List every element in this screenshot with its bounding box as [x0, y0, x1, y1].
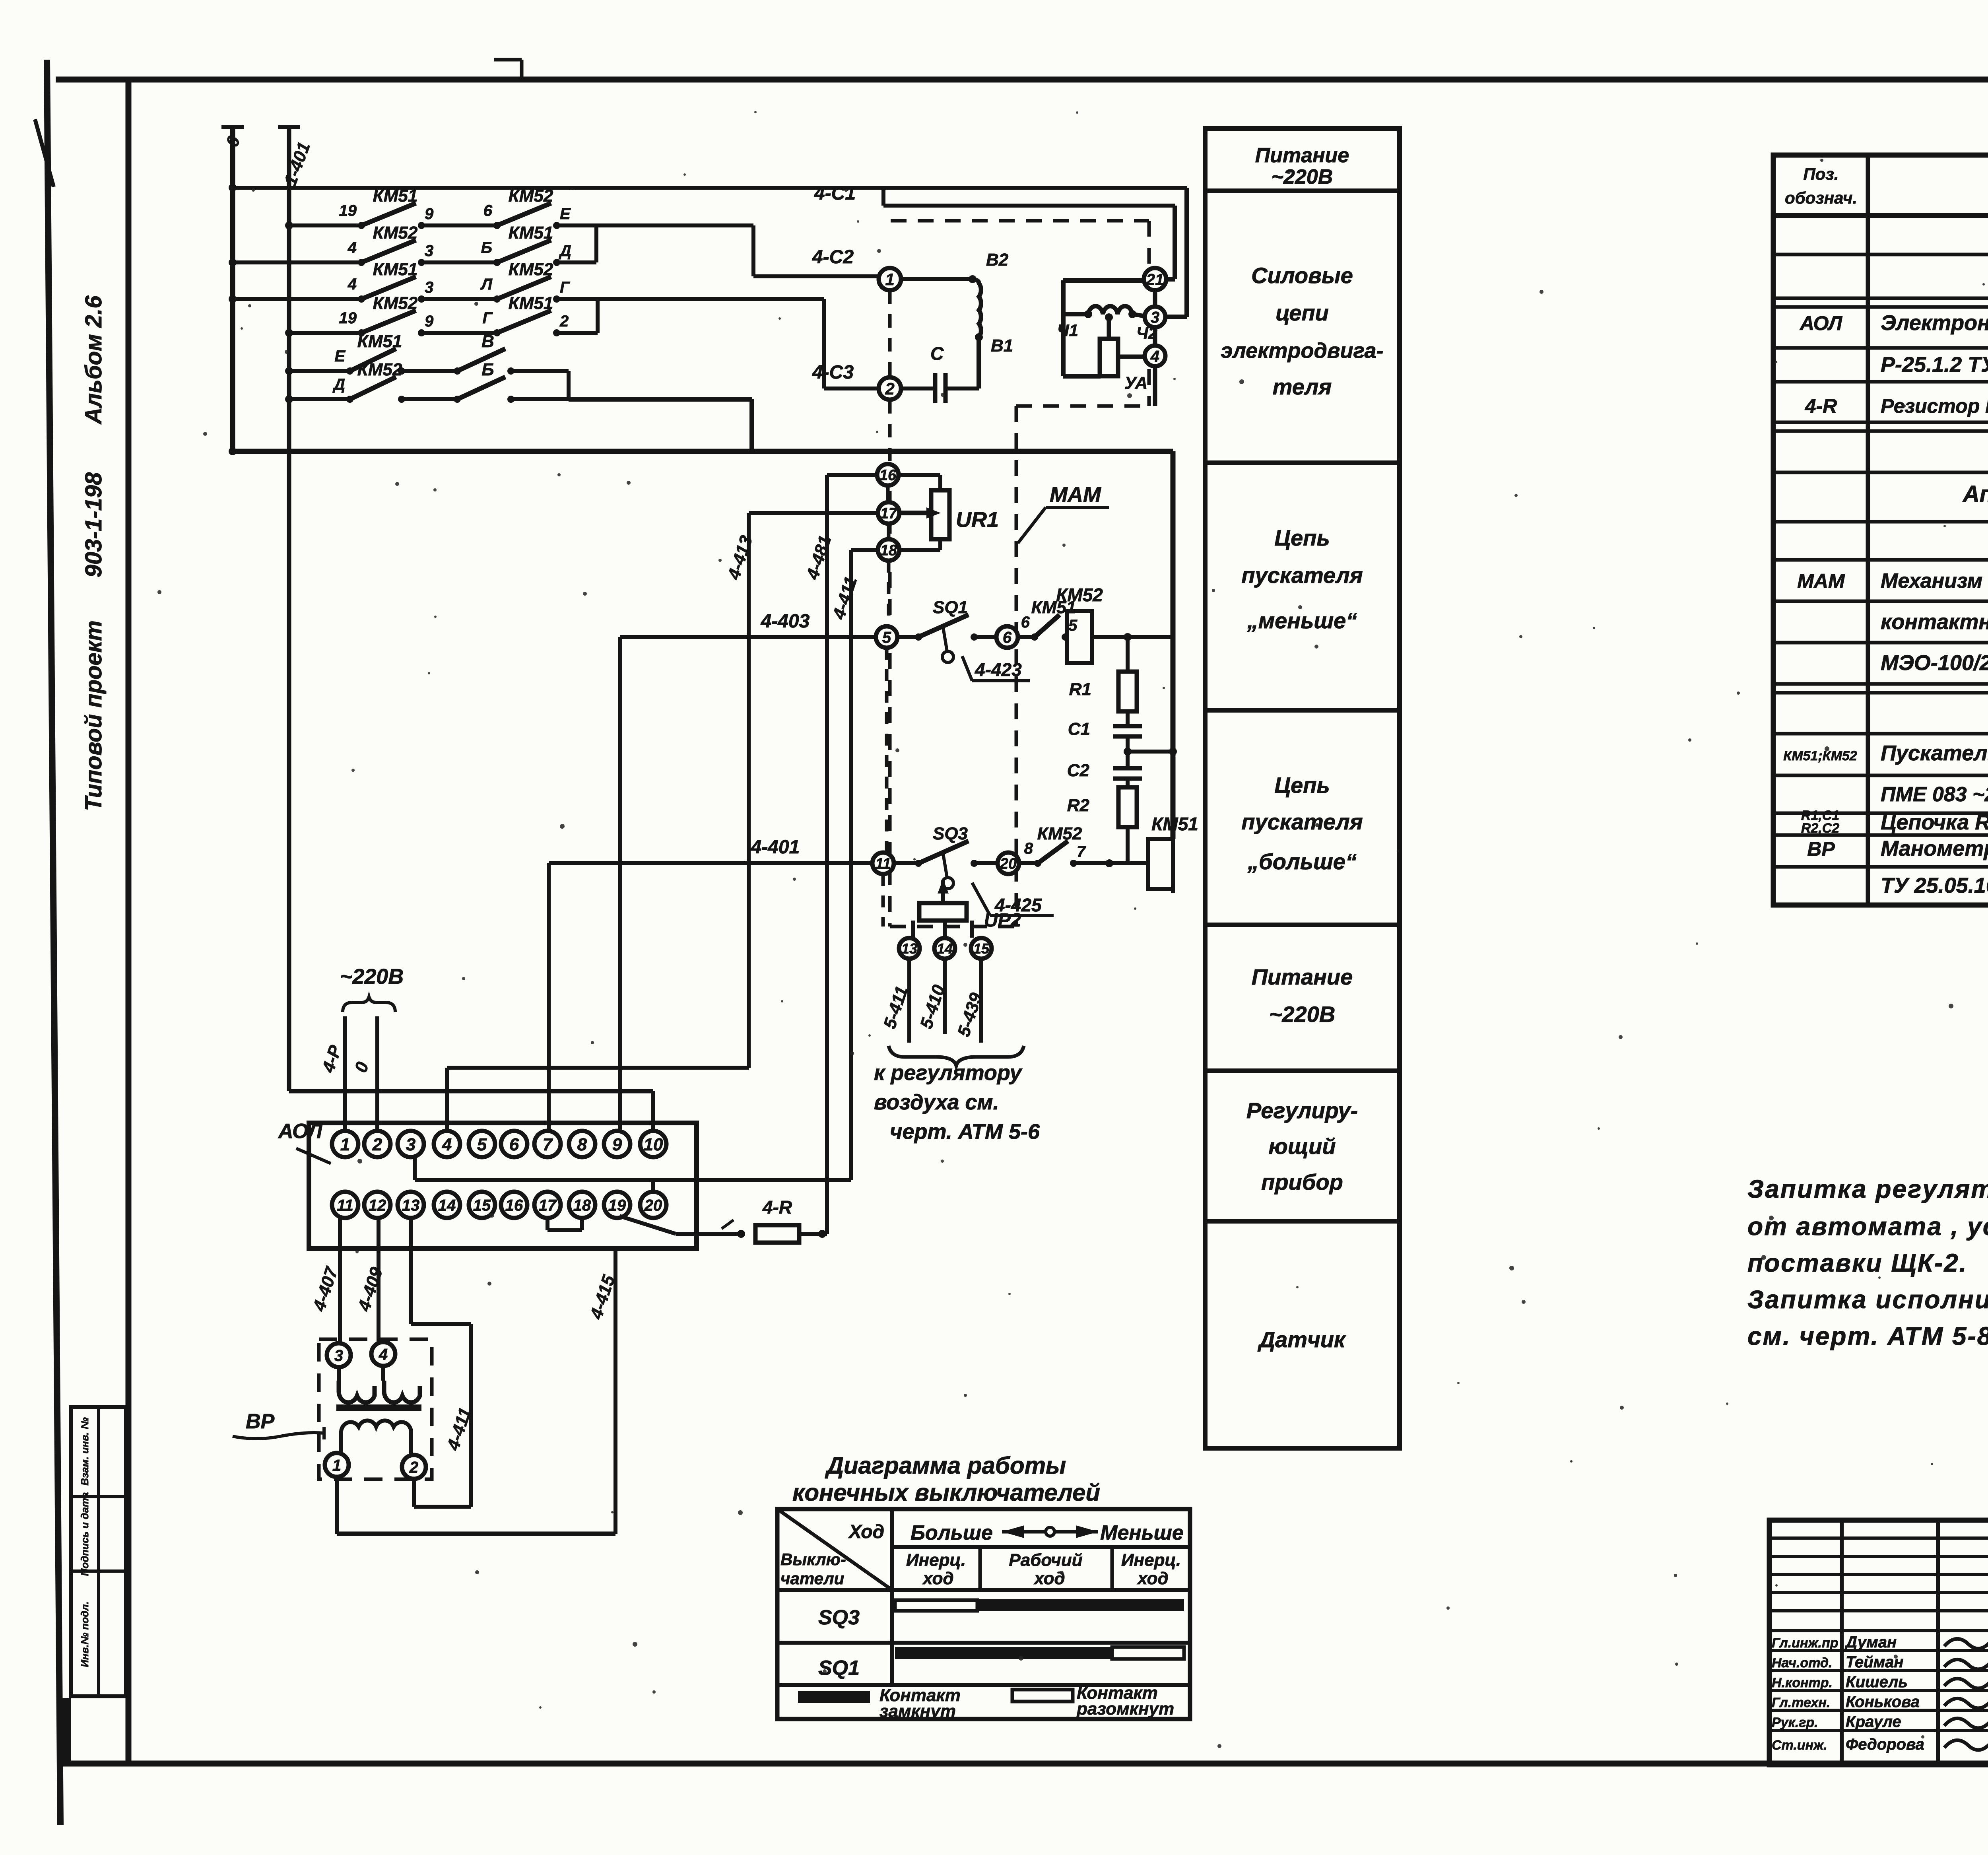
svg-text:воздуха см.: воздуха см.: [874, 1090, 999, 1114]
svg-text:МЭО-100/25 - 0,25: МЭО-100/25 - 0,25: [1881, 651, 1988, 675]
svg-text:„больше“: „больше“: [1247, 849, 1357, 874]
svg-text:20: 20: [644, 1197, 662, 1214]
svg-text:5: 5: [477, 1135, 487, 1154]
svg-text:Г: Г: [560, 279, 571, 296]
svg-text:С: С: [930, 343, 944, 364]
svg-text:„меньше“: „меньше“: [1247, 608, 1357, 633]
svg-text:903-1-198: 903-1-198: [81, 472, 107, 577]
svg-text:16: 16: [879, 467, 897, 484]
svg-text:4-С2: 4-С2: [812, 247, 854, 268]
svg-text:18: 18: [880, 542, 897, 559]
svg-text:контактный ГОСТ 7192-80: контактный ГОСТ 7192-80: [1881, 610, 1988, 634]
svg-text:R2,С2: R2,С2: [1801, 821, 1839, 836]
svg-text:ход: ход: [1137, 1569, 1168, 1588]
svg-text:Р-25.1.2 ТУ 25.02.1948-76: Р-25.1.2 ТУ 25.02.1948-76: [1881, 353, 1988, 377]
svg-text:С1: С1: [1068, 719, 1090, 739]
svg-text:УА: УА: [1124, 373, 1147, 393]
svg-text:Манометр МЭД модель 22365: Манометр МЭД модель 22365: [1881, 837, 1988, 860]
svg-text:Б: Б: [481, 360, 494, 379]
svg-text:замкнут: замкнут: [879, 1702, 956, 1721]
svg-text:Электронный регулирующий при: Электронный регулирующий прибор: [1881, 311, 1988, 335]
svg-text:КМ51: КМ51: [509, 223, 553, 243]
svg-text:4-R: 4-R: [762, 1197, 792, 1218]
svg-text:Резистор МЛТ-2 2ком,2Вт ГОСТ 7: Резистор МЛТ-2 2ком,2Вт ГОСТ 7113-77Е: [1881, 395, 1988, 417]
svg-text:14: 14: [937, 940, 953, 957]
svg-text:6: 6: [483, 202, 493, 219]
svg-text:Пускатель магнитный реверсив: Пускатель магнитный реверсивный: [1881, 741, 1988, 765]
svg-text:17: 17: [880, 505, 898, 522]
svg-text:3: 3: [334, 1347, 343, 1364]
svg-text:9: 9: [425, 313, 434, 330]
svg-text:КМ52: КМ52: [357, 360, 402, 379]
svg-text:Запитка исполнительного ме: Запитка исполнительного механизма от щит…: [1747, 1285, 1988, 1314]
svg-text:Питание: Питание: [1252, 964, 1353, 989]
svg-text:4-С3: 4-С3: [812, 362, 854, 383]
svg-text:Выклю-: Выклю-: [780, 1550, 846, 1569]
svg-text:обознач.: обознач.: [1785, 188, 1857, 207]
svg-text:Кишель: Кишель: [1846, 1673, 1908, 1691]
svg-text:7: 7: [1077, 843, 1086, 860]
svg-text:4-403: 4-403: [761, 611, 810, 632]
svg-text:Больше: Больше: [911, 1521, 993, 1544]
svg-text:прибор: прибор: [1261, 1169, 1343, 1195]
svg-text:МАМ: МАМ: [1797, 570, 1845, 592]
svg-text:Ч1: Ч1: [1057, 321, 1078, 340]
svg-text:12: 12: [369, 1197, 386, 1214]
svg-text:КМ51: КМ51: [509, 293, 553, 313]
svg-text:11: 11: [875, 856, 891, 872]
svg-text:Е: Е: [334, 348, 346, 365]
svg-text:В: В: [481, 332, 494, 351]
svg-text:6: 6: [1003, 629, 1012, 646]
svg-text:SQ1: SQ1: [818, 1657, 860, 1680]
svg-text:~220В: ~220В: [1269, 1002, 1336, 1027]
svg-text:к регулятору: к регулятору: [874, 1061, 1023, 1085]
svg-text:3: 3: [425, 242, 433, 260]
svg-text:Гл.техн.: Гл.техн.: [1772, 1695, 1830, 1710]
svg-text:АОЛ: АОЛ: [278, 1120, 323, 1143]
svg-text:КМ51;КМ52: КМ51;КМ52: [1783, 748, 1857, 763]
svg-text:ющий: ющий: [1268, 1134, 1336, 1159]
svg-text:20: 20: [1000, 856, 1017, 872]
svg-text:КМ52: КМ52: [1037, 824, 1082, 843]
svg-text:17: 17: [539, 1197, 557, 1214]
svg-text:Механизм электрический одноо: Механизм электрический однооборотный: [1881, 569, 1988, 592]
svg-text:1: 1: [885, 270, 894, 289]
svg-text:15: 15: [973, 940, 990, 957]
svg-text:19: 19: [339, 202, 357, 219]
svg-text:3: 3: [1151, 309, 1159, 326]
svg-text:R1: R1: [1069, 680, 1091, 699]
svg-text:ВР: ВР: [246, 1410, 275, 1433]
svg-text:Гл.инж.пр: Гл.инж.пр: [1772, 1636, 1839, 1651]
svg-text:Конькова: Конькова: [1846, 1693, 1920, 1711]
svg-text:КМ51: КМ51: [357, 332, 402, 351]
svg-text:Инв.№ подл.: Инв.№ подл.: [79, 1601, 91, 1667]
svg-text:4: 4: [1150, 348, 1159, 365]
svg-text:МАМ: МАМ: [1050, 483, 1101, 507]
svg-text:разомкнут: разомкнут: [1076, 1699, 1174, 1719]
svg-text:R2: R2: [1067, 796, 1090, 815]
svg-text:КМ51: КМ51: [1151, 814, 1198, 834]
svg-text:см. черт. АТМ 5-8.: см. черт. АТМ 5-8.: [1747, 1322, 1988, 1350]
svg-text:Нач.отд.: Нач.отд.: [1772, 1655, 1832, 1670]
svg-text:2: 2: [559, 313, 569, 330]
svg-text:электродвига-: электродвига-: [1221, 339, 1383, 363]
svg-text:9: 9: [612, 1135, 622, 1154]
svg-text:8: 8: [1024, 840, 1033, 857]
svg-text:цепи: цепи: [1276, 300, 1329, 325]
svg-text:поставки ЩК-2.: поставки ЩК-2.: [1747, 1249, 1968, 1277]
svg-text:теля: теля: [1273, 374, 1332, 399]
svg-text:Цепь: Цепь: [1274, 773, 1330, 798]
svg-text:Крауле: Крауле: [1846, 1713, 1901, 1731]
svg-text:9: 9: [425, 205, 434, 223]
svg-text:13: 13: [402, 1197, 420, 1214]
svg-text:Подпись и дата: Подпись и дата: [79, 1492, 91, 1576]
svg-text:пускателя: пускателя: [1241, 563, 1363, 588]
svg-text:6: 6: [509, 1135, 519, 1154]
svg-text:UR1: UR1: [956, 508, 999, 532]
svg-text:Поз.: Поз.: [1804, 165, 1839, 183]
svg-text:4: 4: [379, 1346, 388, 1363]
svg-text:КМ52: КМ52: [373, 293, 418, 313]
svg-text:Рук.гр.: Рук.гр.: [1772, 1715, 1818, 1730]
svg-text:15: 15: [473, 1197, 491, 1214]
svg-text:В2: В2: [986, 250, 1009, 270]
svg-text:КМ51: КМ51: [373, 260, 418, 279]
svg-text:Регулиру-: Регулиру-: [1246, 1098, 1358, 1123]
svg-text:черт. АТМ 5-6: черт. АТМ 5-6: [890, 1120, 1040, 1144]
svg-text:4-401: 4-401: [751, 837, 800, 858]
svg-text:Г: Г: [482, 309, 493, 327]
svg-text:SQ3: SQ3: [818, 1606, 860, 1629]
svg-text:Цепочка RC: Цепочка RC: [1881, 810, 1988, 834]
svg-text:Запитка регулятора напряже: Запитка регулятора напряжением ~220В осу…: [1747, 1175, 1988, 1203]
svg-text:19: 19: [339, 309, 357, 327]
svg-text:Силовые: Силовые: [1251, 263, 1353, 288]
svg-text:Б: Б: [481, 239, 492, 256]
svg-text:13: 13: [901, 940, 917, 957]
svg-text:АОЛ: АОЛ: [1799, 312, 1843, 334]
svg-text:18: 18: [573, 1197, 591, 1214]
svg-text:2: 2: [885, 379, 894, 398]
svg-text:1: 1: [340, 1135, 350, 1154]
svg-text:от автомата , установленного: от автомата , установленного на щите ком…: [1747, 1212, 1988, 1241]
svg-text:Д: Д: [559, 242, 571, 260]
svg-text:Диаграмма работы: Диаграмма работы: [825, 1452, 1066, 1479]
svg-text:Аппаратура по месту: Аппаратура по месту: [1962, 481, 1988, 507]
svg-text:6: 6: [1021, 614, 1030, 631]
svg-text:2: 2: [372, 1135, 382, 1154]
svg-text:КМ51: КМ51: [373, 186, 418, 206]
svg-text:Взам. инв. №: Взам. инв. №: [79, 1417, 91, 1486]
svg-text:19: 19: [608, 1197, 626, 1214]
svg-text:5: 5: [882, 629, 891, 646]
svg-text:Меньше: Меньше: [1100, 1521, 1184, 1544]
svg-text:конечных выключателей: конечных выключателей: [792, 1479, 1100, 1506]
svg-text:4: 4: [348, 276, 357, 293]
svg-text:4: 4: [348, 239, 357, 256]
svg-text:~220В: ~220В: [1272, 165, 1333, 188]
svg-text:Рабочий: Рабочий: [1009, 1550, 1082, 1570]
svg-text:3: 3: [425, 279, 433, 296]
svg-text:4-С1: 4-С1: [814, 183, 856, 204]
svg-text:7: 7: [543, 1135, 553, 1154]
svg-text:КМ52: КМ52: [509, 260, 553, 279]
svg-text:Инерц.: Инерц.: [1121, 1550, 1181, 1570]
svg-text:SQ3: SQ3: [933, 824, 968, 843]
svg-text:1: 1: [332, 1457, 341, 1474]
svg-text:КМ52: КМ52: [373, 223, 418, 243]
svg-text:Н.контр.: Н.контр.: [1772, 1675, 1833, 1690]
svg-text:4-R: 4-R: [1805, 395, 1837, 417]
svg-text:КМ52: КМ52: [509, 186, 553, 206]
svg-text:14: 14: [438, 1197, 456, 1214]
svg-text:5: 5: [1068, 617, 1077, 634]
svg-text:Инерц.: Инерц.: [906, 1550, 966, 1570]
svg-text:ПМЕ 083 ~220В ОСТ 16.0536.00: ПМЕ 083 ~220В ОСТ 16.0536.001-72: [1881, 783, 1988, 806]
svg-text:КМ52: КМ52: [1056, 585, 1103, 605]
svg-text:ТУ 25.05.1617-74: ТУ 25.05.1617-74: [1881, 874, 1988, 897]
svg-text:16: 16: [505, 1197, 523, 1214]
svg-text:ход: ход: [922, 1569, 953, 1588]
svg-text:Питание: Питание: [1255, 144, 1349, 167]
svg-text:Ст.инж.: Ст.инж.: [1772, 1738, 1827, 1753]
svg-text:21: 21: [1146, 271, 1164, 288]
svg-text:3: 3: [406, 1135, 415, 1154]
svg-text:Цепь: Цепь: [1274, 525, 1330, 550]
svg-text:4: 4: [442, 1135, 452, 1154]
svg-text:10: 10: [644, 1135, 663, 1154]
svg-text:11: 11: [337, 1197, 353, 1214]
svg-text:Датчик: Датчик: [1258, 1327, 1346, 1352]
svg-text:С2: С2: [1067, 761, 1090, 780]
svg-text:Типовой проект: Типовой проект: [81, 620, 107, 811]
svg-text:ВР: ВР: [1807, 838, 1835, 860]
svg-text:Д: Д: [332, 376, 345, 393]
svg-text:2: 2: [409, 1459, 418, 1476]
svg-text:Л: Л: [480, 276, 493, 293]
svg-text:4-423: 4-423: [975, 659, 1022, 680]
svg-text:UР2: UР2: [984, 910, 1021, 931]
svg-text:8: 8: [577, 1135, 587, 1154]
svg-text:В1: В1: [991, 336, 1013, 355]
svg-text:пускателя: пускателя: [1241, 809, 1363, 834]
svg-text:Федорова: Федорова: [1846, 1736, 1924, 1753]
svg-text:Е: Е: [560, 205, 571, 223]
svg-text:~220В: ~220В: [340, 965, 404, 989]
svg-text:Альбом 2.6: Альбом 2.6: [81, 295, 107, 425]
svg-text:SQ1: SQ1: [933, 598, 968, 617]
svg-text:Думан: Думан: [1844, 1634, 1897, 1651]
svg-text:чатели: чатели: [780, 1569, 844, 1588]
svg-text:Ход: Ход: [848, 1521, 884, 1542]
